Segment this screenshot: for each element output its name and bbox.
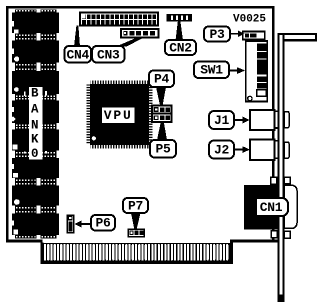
CN1 D-sub outline through bracket: [284, 185, 297, 228]
memory chip U1 pin1 square: [14, 30, 18, 34]
memory chip U6 pin1 square: [13, 173, 18, 178]
bracket bottom tip: [278, 295, 285, 303]
svg-text:B: B: [31, 87, 39, 101]
svg-text:J1: J1: [214, 113, 230, 128]
svg-text:CN3: CN3: [97, 47, 120, 62]
svg-text:P5: P5: [155, 142, 171, 157]
CN1 jackscrew tab upper-right: [284, 177, 290, 184]
connector CN1 black body: [244, 185, 278, 230]
chip polarity mark right lower: [45, 151, 47, 154]
svg-text:P3: P3: [209, 27, 225, 42]
chip polarity mark left upper: [24, 92, 26, 96]
label J2 with arrow: [209, 141, 250, 159]
board outline left border: [6, 6, 9, 243]
memory chip U4 pin1 diamond: [10, 116, 16, 122]
svg-text:P6: P6: [95, 216, 111, 231]
svg-text:P4: P4: [154, 72, 170, 87]
chip polarity mark left lower: [24, 152, 26, 154]
memory chip U3/U4 pin band: [15, 94, 36, 101]
label P6 with arrow: [74, 215, 115, 231]
VPU pins right: [149, 85, 153, 145]
label CN3: [92, 38, 143, 63]
memory chip U1 left notch: [12, 21, 14, 27]
memory chip U7 body: [12, 186, 59, 206]
svg-text:SW1: SW1: [200, 63, 223, 78]
VPU pins top: [91, 80, 149, 84]
memory chip U4 left notch: [12, 107, 14, 112]
label J1 with arrow: [209, 111, 250, 129]
board outline top border: [6, 6, 275, 9]
label CN4: [65, 26, 92, 63]
CN1 jackscrew tab upper-left: [271, 177, 277, 184]
memory chip U4/U5 pin band: [15, 123, 36, 130]
label CN2: [165, 22, 196, 56]
memory chip U2 pin1 circle: [14, 56, 19, 61]
memory chip U8 bottom pins: [15, 235, 36, 238]
svg-text:CN4: CN4: [66, 47, 89, 62]
VPU label: [102, 108, 135, 124]
bracket top tab inner edge: [284, 39, 314, 41]
svg-text:K: K: [31, 133, 39, 147]
switch SW1 (DIP switch): [246, 41, 268, 102]
RCA jack J2 box: [250, 140, 275, 161]
J1 jack protrusion through bracket: [275, 110, 290, 129]
CN1 jackscrew tab lower-right: [284, 231, 290, 238]
label P5 with pointer: [150, 122, 176, 158]
chip polarity mark right upper: [45, 91, 47, 95]
bracket left wall: [278, 33, 280, 302]
svg-text:A: A: [31, 103, 39, 117]
svg-text:VPU: VPU: [104, 108, 133, 123]
memory chip U7 pin1 circle: [14, 199, 20, 205]
memory chip U5/U6 pin band: [15, 151, 36, 159]
connector P3 component: [243, 32, 265, 40]
jumper block P4/P5: [152, 106, 172, 123]
memory chip U7/U8 pin band: [15, 206, 36, 214]
memory chip U2/U3 pin band: [15, 63, 36, 72]
VPU chip body: [86, 80, 152, 148]
connector CN2 (small header): [167, 14, 193, 22]
memory chip U8 left notch: [12, 221, 14, 226]
svg-text:V0025: V0025: [233, 14, 266, 26]
svg-text:N: N: [31, 118, 39, 132]
connector CN3 (single row header): [121, 29, 159, 38]
memory chip U8 body: [12, 214, 59, 236]
VPU pins bottom: [91, 145, 149, 149]
svg-text:CN2: CN2: [169, 40, 192, 55]
board outline right border: [272, 6, 275, 243]
board outline bottom border left segment: [6, 240, 43, 243]
label P3 with arrow: [204, 27, 245, 42]
bracket right wall: [282, 33, 284, 302]
memory chip U6 left notch: [12, 164, 14, 169]
svg-text:CN1: CN1: [260, 200, 283, 215]
label P7 with pointer: [123, 198, 148, 229]
bracket top tab hook: [315, 33, 317, 41]
card edge connector gold fingers: [43, 243, 231, 261]
memory chip U6/U7 pin band: [15, 178, 36, 186]
memory chip U5 body: [12, 130, 59, 151]
VPU pins left: [86, 85, 90, 145]
card edge connector right wall: [230, 243, 233, 265]
svg-text:P7: P7: [128, 198, 143, 213]
label CN1: [256, 198, 288, 216]
jumper P6 component: [67, 215, 74, 233]
memory chip U3 body: [12, 71, 59, 94]
memory chip U2 body: [12, 41, 59, 63]
card edge connector left wall: [41, 243, 44, 265]
memory chip U6 body: [12, 158, 59, 178]
memory chip U8 pin1 square: [13, 229, 18, 234]
memory chip U1 body: [12, 13, 59, 34]
BANK0 label strip: [24, 87, 47, 162]
J2 jack protrusion through bracket: [275, 140, 290, 159]
svg-text:0: 0: [31, 147, 39, 161]
bracket top tab outer edge: [278, 33, 317, 35]
memory chip U2 left notch: [12, 49, 14, 55]
svg-text:J2: J2: [214, 142, 230, 157]
RCA jack J1 box: [250, 110, 275, 130]
jumper P7 component: [128, 229, 144, 237]
label SW1 with arrow: [194, 62, 245, 79]
CN1 jackscrew tab lower-left: [271, 231, 277, 238]
board outline bottom border right segment: [230, 240, 280, 243]
connector CN4 (dual row header): [80, 13, 158, 26]
memory chip U1 top pins: [15, 10, 36, 13]
memory chip U1/U2 pin band: [15, 33, 36, 41]
memory chip U5 pin1 square: [13, 145, 18, 150]
memory chip U3 pin1 circle: [14, 87, 19, 92]
card edge connector bottom bar: [41, 261, 234, 265]
memory chip U4 body: [12, 101, 59, 124]
VPU pin1 dot: [92, 136, 96, 140]
label P4 with pointer: [149, 71, 174, 105]
